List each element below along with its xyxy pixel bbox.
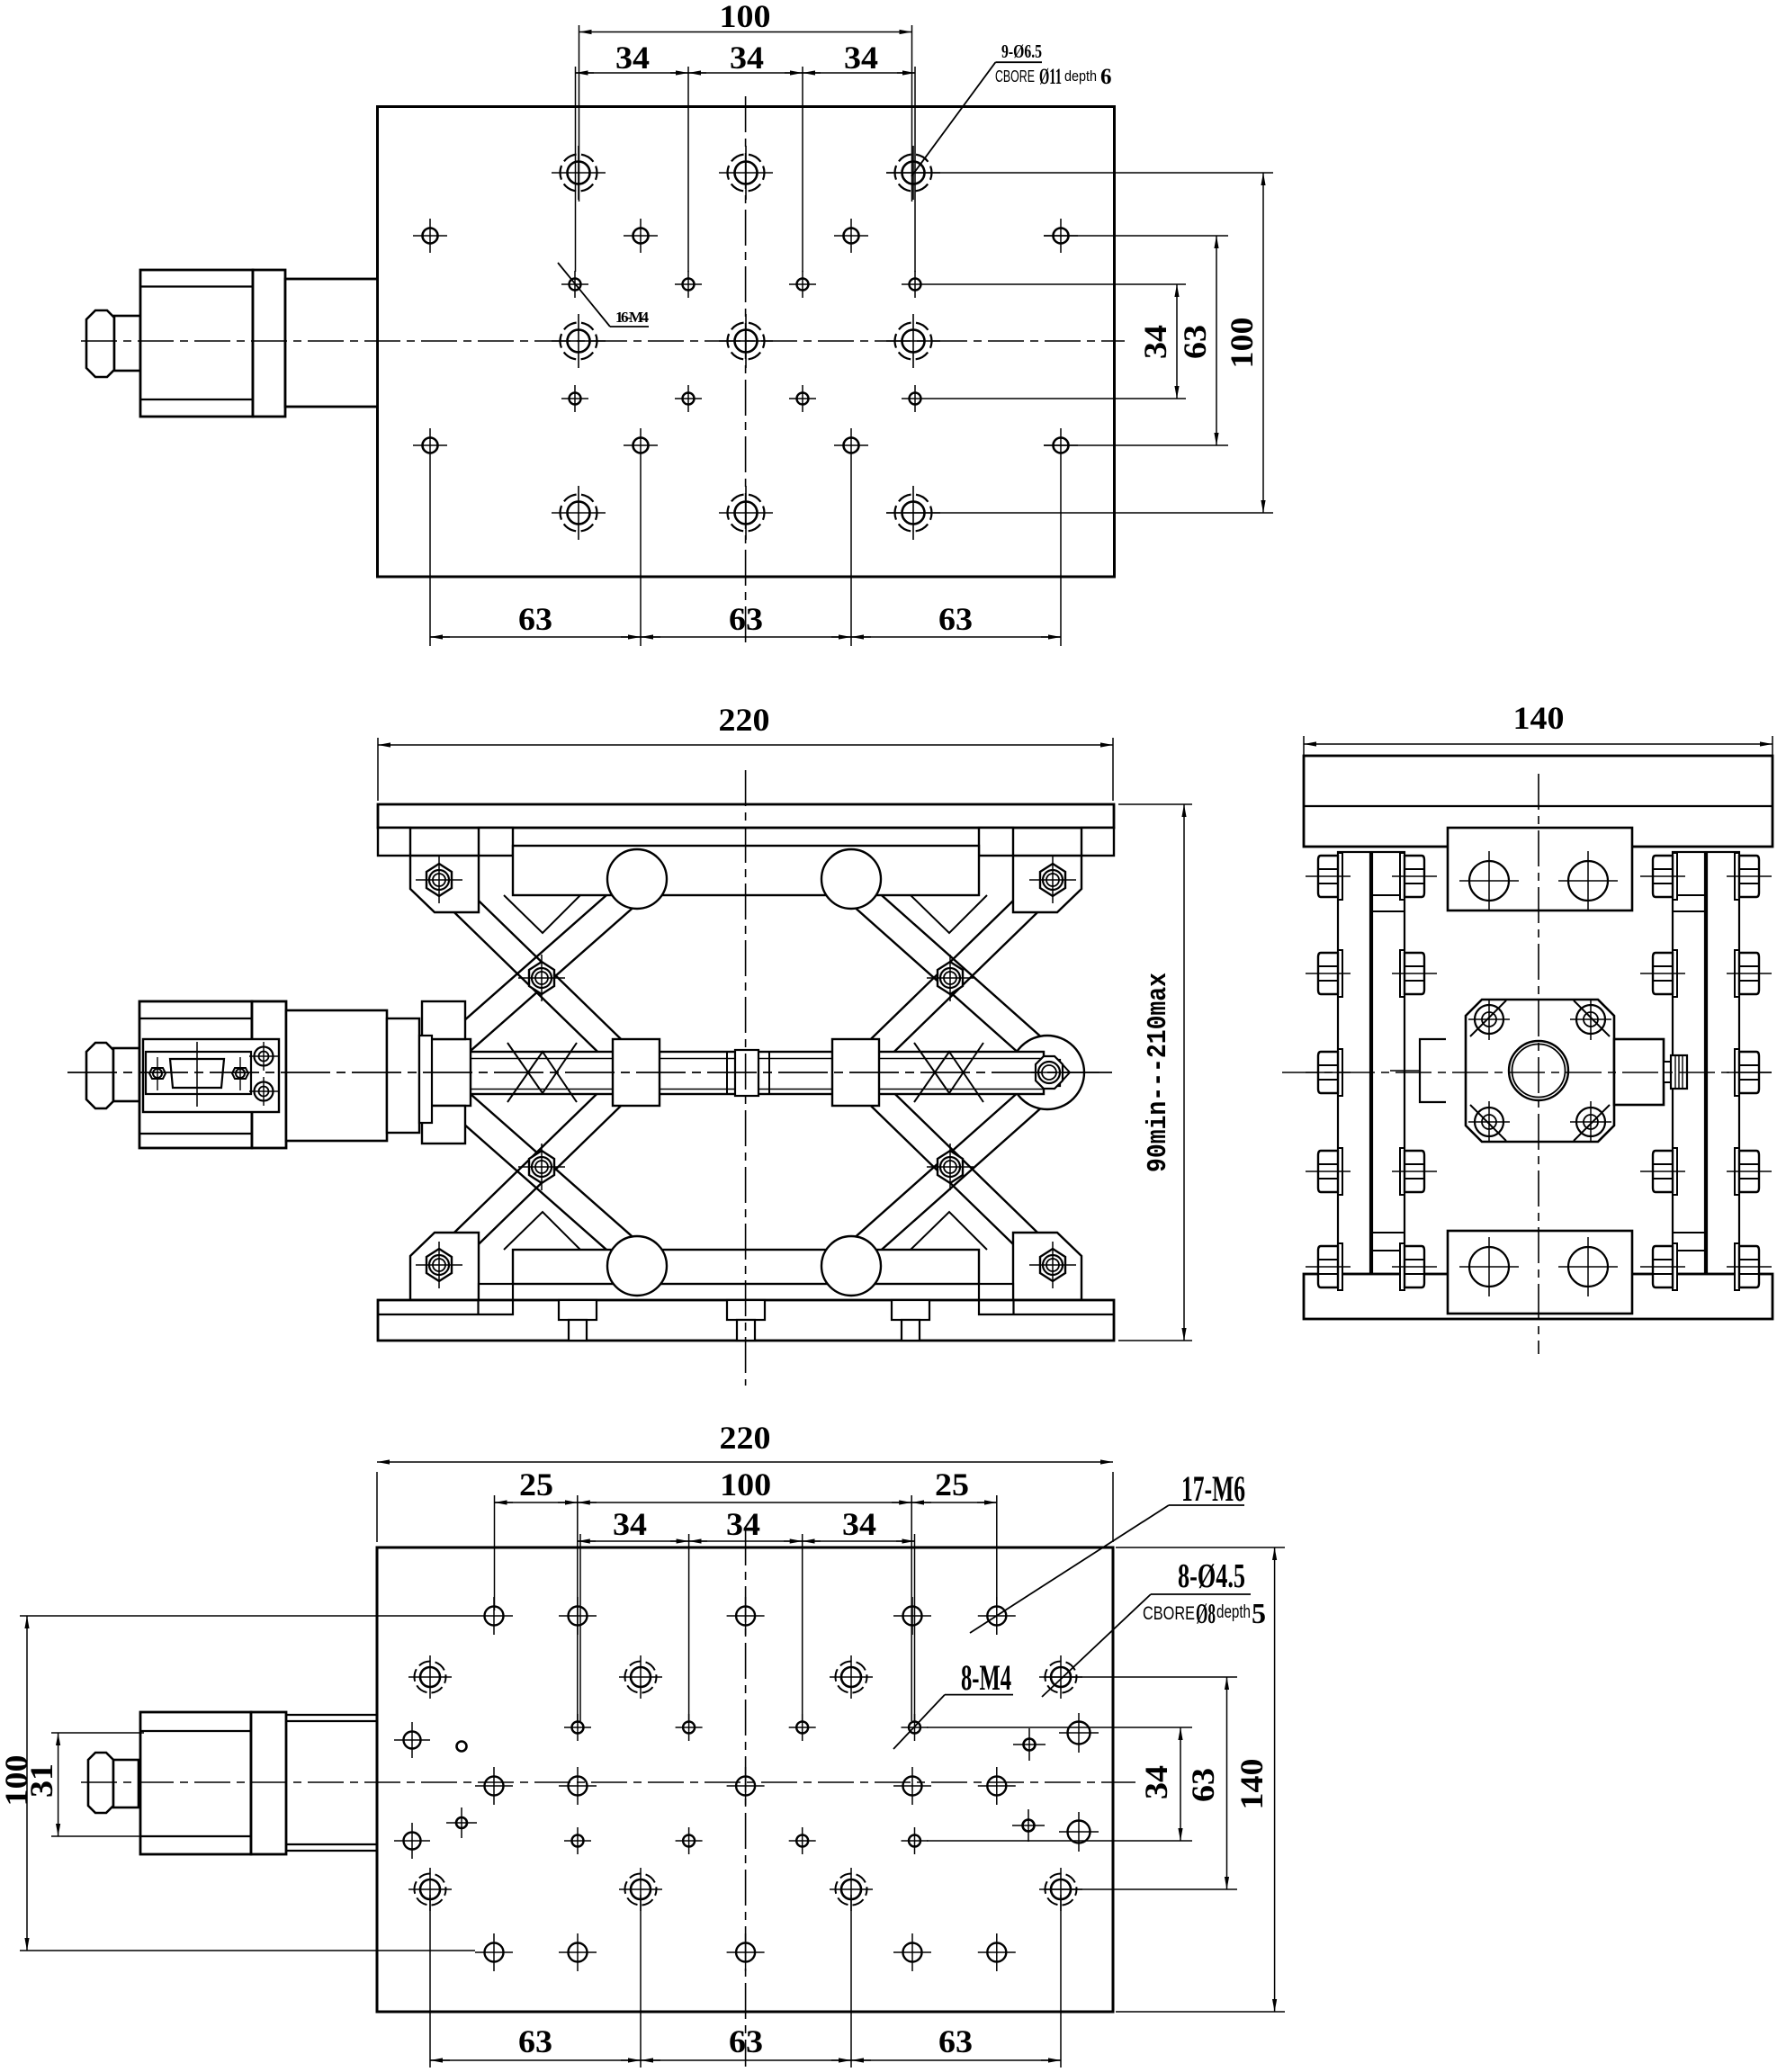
svg-text:220: 220 bbox=[719, 702, 770, 738]
pivot pin hex bolts 4x5 bbox=[1306, 853, 1351, 900]
horizontal centerline bottom view bbox=[81, 1781, 1135, 1783]
dim 220 bottom view bbox=[376, 1472, 378, 1542]
motor flange (top view) bbox=[253, 270, 285, 417]
svg-text:depth: depth bbox=[1064, 67, 1097, 85]
scissor strut upper-left A bbox=[430, 871, 1062, 1274]
mid pivot nut lower-right bbox=[927, 1144, 974, 1190]
gearbox center bore bbox=[1509, 1041, 1568, 1100]
right side dims: extension lines bbox=[886, 172, 1273, 174]
scissor strut upper-left B bbox=[439, 876, 647, 1062]
bottom plate side view bbox=[1304, 1274, 1773, 1319]
svg-text:34: 34 bbox=[1138, 1765, 1174, 1799]
motor body bottom view bbox=[140, 1712, 251, 1854]
svg-text:63: 63 bbox=[518, 601, 552, 637]
top pivot bolt left bbox=[416, 857, 462, 903]
svg-text:25: 25 bbox=[935, 1467, 969, 1502]
top boss left bbox=[607, 849, 667, 909]
bottom dim line 63x3 bbox=[430, 636, 1061, 638]
top left hanger tab bbox=[479, 828, 513, 856]
gearbox corner bolts bbox=[1468, 999, 1611, 1143]
shaft coupling knurled bbox=[1664, 1062, 1671, 1082]
top plate front view bbox=[378, 804, 1114, 828]
mid pivot nut lower-left bbox=[518, 1144, 565, 1190]
gearbox (top view) bbox=[285, 279, 378, 407]
bottom left hanger tab bbox=[479, 1284, 513, 1300]
motor shaft bottom view bbox=[113, 1760, 139, 1807]
foot slot left bbox=[559, 1300, 929, 1341]
svg-text:63: 63 bbox=[518, 2023, 552, 2059]
bottom right pedestal step bbox=[979, 1300, 1114, 1314]
8 counterbore holes bottom view bbox=[408, 1655, 452, 1699]
foot slot right bbox=[892, 1300, 929, 1320]
svg-text:63: 63 bbox=[1185, 1768, 1221, 1802]
travelling nut left bbox=[613, 1039, 660, 1106]
8 M4 tapped holes 34 pitch bbox=[561, 271, 588, 298]
side view vertical centerline bbox=[1538, 774, 1539, 1354]
svg-text:34: 34 bbox=[730, 40, 764, 76]
svg-text:140: 140 bbox=[1234, 1759, 1270, 1810]
bottom link bar bbox=[513, 1250, 979, 1284]
top hanger pin holes bbox=[1459, 851, 1618, 910]
motor body front view bbox=[139, 1001, 252, 1148]
bottom hanger pin holes bbox=[1459, 1237, 1618, 1296]
8 M4 holes bottom view bbox=[564, 1714, 591, 1741]
foot slot center bbox=[727, 1300, 765, 1320]
dim 34x3 top: extension lines bbox=[575, 67, 577, 272]
connector jack screws bbox=[149, 1057, 248, 1090]
motor mount special holes left bbox=[394, 1722, 477, 1859]
8 cross holes 63 pitch bbox=[413, 219, 447, 253]
dim 90min-210max extension lines bbox=[1118, 803, 1192, 805]
dim 100 top: extension lines bbox=[579, 25, 580, 202]
dim 220 extension lines bbox=[377, 738, 379, 801]
svg-text:140: 140 bbox=[1513, 700, 1565, 736]
leader 9-d6.5 CBORE bbox=[911, 62, 995, 176]
mid pivot nut upper-right bbox=[927, 955, 974, 1001]
svg-text:9-Ø6.5: 9-Ø6.5 bbox=[1001, 40, 1042, 62]
top right clamp block bbox=[1013, 856, 1081, 912]
dim 31 left bbox=[51, 1732, 144, 1734]
side view horizontal centerline bbox=[1282, 1072, 1774, 1073]
knuckle bolt bbox=[1036, 1056, 1063, 1089]
back layer scissor edge marks bbox=[504, 895, 987, 933]
side frame bar outer-right bbox=[1707, 852, 1739, 1274]
side frame bar inner-right bbox=[1673, 852, 1705, 1274]
leader 8-M4 bbox=[893, 1695, 945, 1749]
bottom boss right bbox=[821, 1236, 881, 1296]
vertical centerline of top view bbox=[745, 96, 747, 646]
motor knob front view bbox=[86, 1043, 113, 1108]
bottom plate (bottom view) bbox=[377, 1547, 1113, 2012]
svg-text:17-M6: 17-M6 bbox=[1181, 1468, 1245, 1509]
dim 63 right bbox=[1216, 236, 1217, 445]
motor housing side view bbox=[1614, 1039, 1664, 1105]
leader 8-d4.5 CBORE bbox=[1042, 1594, 1151, 1697]
top pivot bolt right bbox=[1029, 857, 1076, 903]
motor shaft front view bbox=[113, 1048, 139, 1101]
bottom left clamp block bbox=[410, 1233, 479, 1300]
top plate side view bbox=[1304, 756, 1773, 847]
svg-text:31: 31 bbox=[23, 1763, 59, 1798]
svg-text:CBORE: CBORE bbox=[995, 67, 1035, 85]
svg-text:34: 34 bbox=[844, 40, 878, 76]
motor knob (top view) bbox=[86, 310, 114, 377]
svg-text:CBORE: CBORE bbox=[1143, 1603, 1195, 1624]
svg-text:63: 63 bbox=[938, 2023, 973, 2059]
svg-text:34: 34 bbox=[615, 40, 650, 76]
top hanger block side view bbox=[1448, 828, 1632, 910]
svg-text:8-Ø4.5: 8-Ø4.5 bbox=[1178, 1557, 1245, 1595]
dim 34x3 top: dimension line bbox=[576, 72, 916, 74]
motor mount rails bbox=[286, 1714, 377, 1716]
motor flange bottom view bbox=[251, 1712, 286, 1854]
top left clamp block bbox=[410, 856, 479, 912]
gearbox square side view bbox=[1466, 1000, 1614, 1142]
dim 220 line bbox=[378, 744, 1113, 746]
top boss right bbox=[821, 849, 881, 909]
svg-text:Ø8: Ø8 bbox=[1196, 1597, 1216, 1629]
dim 34 right bbox=[1176, 284, 1178, 399]
svg-text:34: 34 bbox=[842, 1506, 876, 1542]
vertical centerline front view bbox=[745, 770, 747, 1386]
scissor strut lower-left F bbox=[439, 1082, 647, 1268]
svg-text:63: 63 bbox=[1177, 325, 1213, 359]
left sensor bracket bbox=[1420, 1039, 1446, 1102]
top plate (plan view) bbox=[378, 107, 1115, 578]
bottom plate front view bbox=[378, 1300, 1114, 1341]
D-sub connector bbox=[170, 1059, 224, 1088]
dim 34x3 bottom view bbox=[688, 1534, 690, 1721]
right knuckle bbox=[1010, 1036, 1084, 1109]
screw centerline bbox=[67, 1072, 1116, 1073]
dim 100 right bbox=[1262, 173, 1264, 513]
svg-text:100: 100 bbox=[720, 0, 771, 34]
svg-text:5: 5 bbox=[1252, 1597, 1266, 1629]
bottom boss left bbox=[607, 1236, 667, 1296]
9 big counterbore holes 3x3 grid bbox=[552, 146, 606, 200]
svg-text:8-M4: 8-M4 bbox=[961, 1657, 1011, 1698]
svg-text:25: 25 bbox=[519, 1467, 553, 1502]
top right lip bbox=[1081, 828, 1114, 856]
lead screw bbox=[414, 1052, 1044, 1094]
travelling nut right bbox=[832, 1039, 879, 1106]
bottom right hanger tab bbox=[979, 1284, 1013, 1300]
left end pivot block bbox=[430, 1039, 471, 1106]
gearbox housing steps bbox=[286, 1010, 387, 1141]
motor body (top view) bbox=[140, 270, 253, 417]
flange socket bolts bbox=[249, 1042, 278, 1106]
scissor strut lower-right H bbox=[842, 1077, 1055, 1268]
svg-text:34: 34 bbox=[613, 1506, 647, 1542]
connector recess bbox=[143, 1039, 279, 1112]
leader 16-M4 bbox=[558, 263, 610, 327]
svg-text:depth: depth bbox=[1216, 1602, 1251, 1622]
dim 100 top: dimension line bbox=[579, 31, 912, 33]
screw center collar bbox=[735, 1050, 758, 1096]
scissor strut lower-right G bbox=[848, 1065, 1062, 1274]
dim 140 extension lines bbox=[1303, 736, 1305, 761]
bottom dims 63x3: extension lines bbox=[429, 462, 431, 646]
bottom right clamp block bbox=[1013, 1233, 1081, 1300]
bottom hanger block side view bbox=[1448, 1231, 1632, 1314]
scissor strut upper-right D bbox=[842, 876, 1055, 1067]
left end pivot tab upper bbox=[422, 1001, 465, 1039]
svg-text:100: 100 bbox=[1224, 318, 1260, 369]
back layer scissor edge marks over screw bbox=[504, 1043, 987, 1250]
bottom dims 63x3 bottom view bbox=[429, 1895, 431, 2068]
leader 17-M6 bbox=[970, 1505, 1169, 1633]
top right hanger tab bbox=[979, 828, 1013, 856]
bottom pivot bolt left bbox=[416, 1242, 462, 1288]
dim 25/100/25 bbox=[494, 1495, 496, 1610]
bottom left pedestal step bbox=[378, 1300, 513, 1314]
mid pivot nut upper-left bbox=[518, 955, 565, 1001]
svg-text:63: 63 bbox=[938, 601, 973, 637]
top link bar bbox=[513, 846, 979, 895]
svg-text:Ø11: Ø11 bbox=[1039, 65, 1062, 89]
motor shaft (top view) bbox=[114, 316, 140, 371]
svg-text:34: 34 bbox=[1137, 325, 1173, 359]
dim 140 line bbox=[1304, 743, 1773, 745]
dowel holes right bbox=[1012, 1713, 1099, 1852]
svg-text:90min---210max: 90min---210max bbox=[1143, 973, 1174, 1172]
motor flange front view bbox=[252, 1001, 286, 1148]
side frame bar inner-left bbox=[1372, 852, 1405, 1274]
svg-text:16-M4: 16-M4 bbox=[615, 309, 650, 326]
15 M6 holes bbox=[475, 1597, 513, 1635]
svg-text:220: 220 bbox=[720, 1420, 771, 1456]
scissor strut upper-right C bbox=[848, 871, 1062, 1080]
scissor strut lower-left E bbox=[430, 1065, 644, 1274]
dim 34 right side bottom view bbox=[927, 1727, 1192, 1728]
top left lip bbox=[378, 828, 410, 856]
dim 90min-210max line bbox=[1183, 804, 1185, 1341]
dim 140 right side bottom view bbox=[1116, 1547, 1285, 1548]
side frame bar outer-left bbox=[1338, 852, 1370, 1274]
dim 63 right side bottom view bbox=[1044, 1676, 1237, 1678]
svg-text:100: 100 bbox=[720, 1467, 771, 1502]
bottom pivot bolt right bbox=[1029, 1242, 1076, 1288]
svg-text:34: 34 bbox=[726, 1506, 760, 1542]
screw end step bbox=[1044, 1060, 1060, 1086]
left end pivot tab lower bbox=[422, 1106, 465, 1144]
motor knob bottom view bbox=[88, 1753, 113, 1813]
vertical centerline bottom view bbox=[745, 1529, 747, 2067]
svg-text:6: 6 bbox=[1100, 65, 1112, 89]
horizontal centerline of top view bbox=[81, 340, 1125, 342]
link bar end faces bbox=[1673, 894, 1705, 896]
